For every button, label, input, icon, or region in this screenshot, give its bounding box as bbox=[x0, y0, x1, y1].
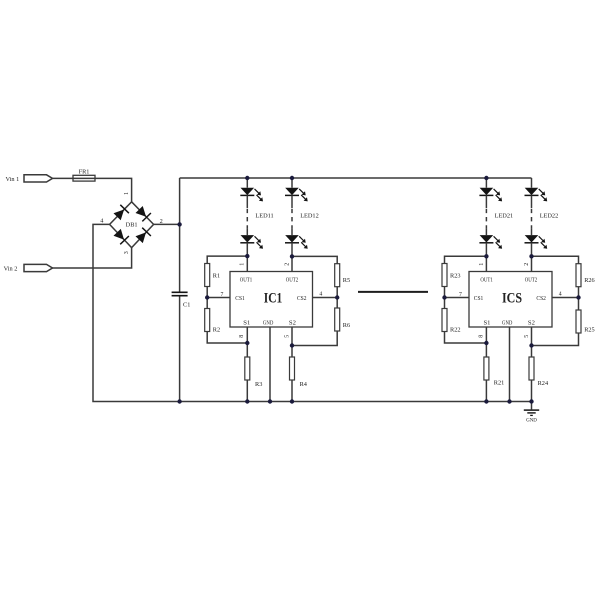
wire dashed LED string LED22 bbox=[531, 208, 533, 229]
wire ICS S2 to R24 bbox=[531, 327, 533, 357]
svg-text:R2: R2 bbox=[213, 327, 220, 334]
node top rail LED21 bbox=[484, 176, 488, 180]
wire below LED21a bbox=[485, 195, 487, 208]
svg-text:GND: GND bbox=[526, 419, 537, 424]
svg-text:8: 8 bbox=[239, 335, 245, 338]
bridge diode D-b (pin1 to pin2) bbox=[136, 206, 151, 221]
wire S2 to R4 bbox=[291, 327, 293, 357]
resistor R22 bbox=[442, 309, 447, 332]
svg-text:ICS: ICS bbox=[502, 290, 522, 306]
svg-text:5: 5 bbox=[285, 335, 291, 338]
wire above lower LED LED22 bbox=[531, 229, 533, 236]
node CS2 ICS junction bbox=[576, 295, 580, 299]
svg-text:R3: R3 bbox=[255, 381, 262, 388]
node bottom rail C1 bbox=[177, 399, 181, 403]
node bottom rail R21 bbox=[484, 399, 488, 403]
svg-text:R26: R26 bbox=[584, 277, 595, 284]
svg-text:S1: S1 bbox=[243, 321, 250, 327]
svg-text:R5: R5 bbox=[343, 277, 350, 284]
wire R24 to bottom rail bbox=[531, 380, 533, 402]
svg-text:CS1: CS1 bbox=[474, 296, 484, 302]
svg-text:CS2: CS2 bbox=[536, 296, 546, 302]
wire top rail to LED22a bbox=[531, 178, 533, 188]
node CS1 ICS junction bbox=[442, 295, 446, 299]
svg-text:OUT2: OUT2 bbox=[525, 278, 537, 284]
wire dashed LED string LED11 bbox=[246, 208, 248, 229]
svg-text:R23: R23 bbox=[450, 272, 461, 279]
ground symbol bbox=[524, 402, 539, 416]
svg-text:5: 5 bbox=[524, 335, 530, 338]
wire S1 to R3 bbox=[246, 327, 248, 357]
svg-text:R4: R4 bbox=[300, 381, 308, 388]
svg-text:R24: R24 bbox=[538, 380, 549, 387]
svg-text:GND: GND bbox=[263, 321, 274, 327]
wire R25 bottom link to S2 wire bbox=[532, 333, 579, 346]
wire top rail bbox=[180, 177, 532, 179]
node top rail LED11 bbox=[245, 176, 249, 180]
wire CS1 pin 7 bbox=[207, 297, 230, 299]
wire dashed LED string LED12 bbox=[291, 208, 293, 229]
node bottom rail ICS GND bbox=[507, 399, 511, 403]
LED LED12a (upper) bbox=[285, 188, 308, 202]
wire R23 to CS1 junction to R22 bbox=[444, 287, 446, 309]
wire above lower LED LED11 bbox=[246, 229, 248, 236]
op-amp IC1 box bbox=[230, 272, 313, 328]
svg-text:S2: S2 bbox=[528, 321, 535, 327]
wire top rail to LED11a bbox=[246, 178, 248, 188]
wire LED12 cathode to OUT pin bbox=[291, 243, 293, 272]
wire below LED22a bbox=[531, 195, 533, 208]
svg-text:LED21: LED21 bbox=[495, 213, 514, 220]
svg-text:Vin 1: Vin 1 bbox=[6, 176, 20, 183]
svg-text:R21: R21 bbox=[494, 380, 505, 387]
svg-text:CS1: CS1 bbox=[235, 296, 245, 302]
svg-text:DB1: DB1 bbox=[126, 222, 138, 229]
fuse FR1 bbox=[73, 175, 95, 181]
bridge diode D-d (pin3 to pin2) bbox=[136, 228, 151, 243]
svg-text:3: 3 bbox=[124, 251, 130, 254]
node R5-OUT2 junction bbox=[290, 254, 294, 258]
svg-text:LED22: LED22 bbox=[540, 213, 559, 220]
wire ICS GND pin to bottom rail bbox=[509, 327, 511, 402]
resistor R6 bbox=[335, 308, 340, 331]
wire above lower LED LED12 bbox=[291, 229, 293, 236]
connector Vin1 bbox=[24, 175, 53, 182]
node bottom rail ground bbox=[529, 399, 533, 403]
LED LED21a (upper) bbox=[479, 188, 502, 202]
wire top rail to LED21a bbox=[485, 178, 487, 188]
svg-text:R22: R22 bbox=[450, 327, 461, 334]
resistor R2 bbox=[205, 309, 210, 332]
node R22-S1 junction bbox=[484, 341, 488, 345]
svg-text:S1: S1 bbox=[484, 321, 491, 327]
wire R2 bottom link to S1 wire bbox=[207, 332, 247, 344]
wire R5 top link to LED12 wire bbox=[292, 256, 337, 263]
wire C1 rail lower bbox=[179, 296, 181, 402]
svg-text:1: 1 bbox=[240, 263, 246, 266]
wire below LED12a bbox=[291, 195, 293, 208]
wire CS2 pin 4 bbox=[313, 297, 338, 299]
svg-text:CS2: CS2 bbox=[297, 296, 307, 302]
wire R26 to CS2 junction to R25 bbox=[578, 287, 580, 310]
node bottom rail R3 bbox=[245, 399, 249, 403]
resistor R5 bbox=[335, 264, 340, 287]
svg-text:R25: R25 bbox=[584, 327, 595, 334]
node R26-OUT2 junction bbox=[529, 254, 533, 258]
wire R3 to bottom rail bbox=[246, 380, 248, 402]
wire R4 to bottom rail bbox=[291, 380, 293, 402]
svg-text:4: 4 bbox=[559, 292, 562, 298]
node R6-S2 junction bbox=[290, 343, 294, 347]
node bottom rail R4 bbox=[290, 399, 294, 403]
svg-text:2: 2 bbox=[285, 263, 291, 266]
svg-text:OUT2: OUT2 bbox=[286, 278, 298, 284]
wire dashed LED string LED21 bbox=[485, 208, 487, 229]
svg-text:R6: R6 bbox=[343, 322, 350, 329]
wire R1 to CS1 junction to R2 bbox=[206, 287, 208, 309]
node R2-S1 junction bbox=[245, 341, 249, 345]
LED LED21b (lower) bbox=[479, 235, 502, 249]
node bridge output junction bbox=[177, 222, 181, 226]
svg-text:FR1: FR1 bbox=[79, 169, 90, 176]
resistor R24 bbox=[529, 357, 534, 380]
bridge DB1 body bbox=[110, 202, 154, 248]
node bottom rail IC1 GND bbox=[268, 399, 272, 403]
wire LED21 cathode to OUT pin bbox=[485, 243, 487, 272]
node CS1 IC1 junction bbox=[205, 295, 209, 299]
svg-text:1: 1 bbox=[479, 263, 485, 266]
svg-text:OUT1: OUT1 bbox=[480, 278, 492, 284]
svg-text:R1: R1 bbox=[213, 272, 220, 279]
op-amp ICS box bbox=[469, 272, 552, 328]
wire below LED11a bbox=[246, 195, 248, 208]
svg-text:LED11: LED11 bbox=[255, 213, 273, 220]
resistor R23 bbox=[442, 264, 447, 287]
svg-text:Vin 2: Vin 2 bbox=[4, 266, 18, 273]
bridge diode D-c (pin4 to pin3) bbox=[114, 229, 129, 244]
node CS2 IC1 junction bbox=[335, 295, 339, 299]
wire R1 top link to LED11 wire bbox=[207, 256, 247, 263]
wire R23 top link to LED21 wire bbox=[445, 256, 487, 263]
LED LED11a (upper) bbox=[240, 188, 263, 202]
node R1-OUT1 junction bbox=[245, 254, 249, 258]
wire R21 to bottom rail bbox=[485, 380, 487, 402]
wire LED22 cathode to OUT pin bbox=[531, 243, 533, 272]
wire ICS CS1 pin 7 bbox=[445, 297, 470, 299]
wire ICS CS2 pin 4 bbox=[552, 297, 579, 299]
svg-text:IC1: IC1 bbox=[264, 290, 283, 306]
svg-text:1: 1 bbox=[124, 192, 130, 195]
connector Vin2 bbox=[24, 264, 53, 271]
resistor R1 bbox=[205, 264, 210, 287]
resistor R4 bbox=[290, 357, 295, 380]
wire bold continuation segment between IC1 and ICS bbox=[358, 291, 428, 293]
wire R26 top link to LED22 wire bbox=[532, 256, 579, 263]
bridge diode D-a (pin4 to pin1) bbox=[114, 205, 129, 220]
wire top rail to LED12a bbox=[291, 178, 293, 188]
wire R6 bottom link to S2 wire bbox=[292, 331, 337, 346]
svg-text:7: 7 bbox=[459, 292, 462, 298]
LED LED11b (lower) bbox=[240, 235, 263, 249]
node R25-S2 junction bbox=[529, 343, 533, 347]
LED LED22b (lower) bbox=[525, 235, 548, 249]
wire above lower LED LED21 bbox=[485, 229, 487, 236]
LED LED22a (upper) bbox=[525, 188, 548, 202]
wire IC1 GND pin to bottom rail bbox=[269, 327, 271, 402]
node R23-OUT1 junction bbox=[484, 254, 488, 258]
resistor R3 bbox=[245, 357, 250, 380]
svg-text:C1: C1 bbox=[183, 302, 190, 309]
wire LED11 cathode to OUT pin bbox=[246, 243, 248, 272]
node top rail LED12 bbox=[290, 176, 294, 180]
svg-text:LED12: LED12 bbox=[300, 213, 319, 220]
resistor R26 bbox=[576, 264, 581, 287]
svg-text:8: 8 bbox=[478, 335, 484, 338]
svg-text:7: 7 bbox=[221, 292, 224, 298]
resistor R21 bbox=[484, 357, 489, 380]
resistor R25 bbox=[576, 310, 581, 333]
svg-text:S2: S2 bbox=[289, 321, 296, 327]
svg-text:OUT1: OUT1 bbox=[240, 278, 252, 284]
capacitor C1 bbox=[172, 292, 188, 295]
wire R22 bottom link to S1 wire bbox=[445, 332, 487, 344]
wire Vin1 to FR1 to bridge pin1 bbox=[53, 178, 132, 201]
wire R5 to CS2 junction to R6 bbox=[336, 287, 338, 308]
wire bridge pin2 to C1 rail bbox=[154, 223, 180, 225]
wire ICS S1 to R21 bbox=[485, 327, 487, 357]
wire C1 rail upper bbox=[179, 178, 181, 292]
LED LED12b (lower) bbox=[285, 235, 308, 249]
svg-text:2: 2 bbox=[524, 263, 530, 266]
wire bridge pin4 to bottom rail and bottom rail bbox=[93, 224, 532, 401]
svg-text:GND: GND bbox=[502, 321, 513, 327]
wire Vin2 to bridge pin3 bbox=[53, 248, 132, 268]
svg-text:4: 4 bbox=[319, 292, 322, 298]
